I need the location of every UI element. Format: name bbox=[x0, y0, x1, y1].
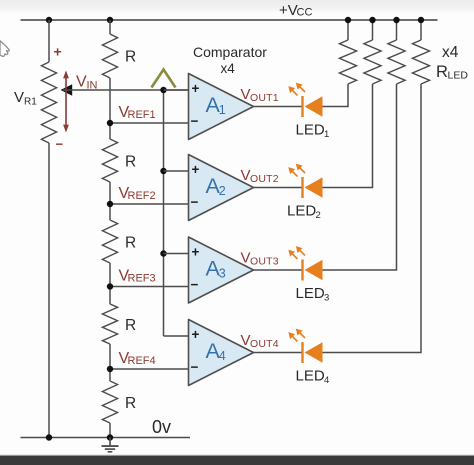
svg-text:V: V bbox=[76, 74, 87, 91]
svg-text:REF3: REF3 bbox=[128, 273, 156, 285]
wire rail to R_LED4 bbox=[420, 20, 422, 40]
mouse cursor bbox=[0, 41, 9, 57]
svg-text:OUT3: OUT3 bbox=[250, 256, 279, 268]
label Vout1 bbox=[241, 86, 279, 104]
svg-text:+: + bbox=[192, 327, 200, 342]
op-amp comparator A2 bbox=[189, 155, 254, 221]
svg-text:V: V bbox=[241, 167, 251, 184]
wire rail to R_LED2 bbox=[372, 20, 374, 40]
svg-text:R: R bbox=[125, 395, 136, 412]
svg-text:LED: LED bbox=[296, 122, 325, 139]
wire LED4 to R_LED4 bbox=[323, 84, 422, 353]
label LED1 bbox=[296, 122, 330, 141]
label Vout4 bbox=[241, 332, 279, 350]
svg-text:−: − bbox=[191, 195, 199, 210]
svg-text:R: R bbox=[436, 63, 448, 81]
node 0v / ladder bbox=[107, 434, 113, 440]
wire A3 output to LED3 bbox=[254, 269, 303, 271]
node Vref1 tap bbox=[107, 120, 113, 126]
node Vref4 tap bbox=[107, 366, 113, 372]
wire Vref3 to A3 - input bbox=[110, 286, 189, 288]
LED3 bbox=[288, 246, 322, 280]
wire A3 + input stub bbox=[164, 253, 189, 255]
wire 0v rail bbox=[21, 437, 191, 439]
wire Vref2 to A2 - input bbox=[110, 203, 189, 205]
wire LED2 to R_LED2 bbox=[323, 84, 373, 188]
svg-text:1: 1 bbox=[324, 129, 329, 140]
LED2 bbox=[288, 164, 322, 198]
resistor R_LED4 bbox=[412, 40, 429, 84]
svg-text:4: 4 bbox=[219, 349, 226, 363]
svg-text:R: R bbox=[125, 49, 136, 66]
wire LED3 to R_LED3 bbox=[323, 84, 397, 270]
svg-text:R1: R1 bbox=[24, 97, 37, 108]
label A4 bbox=[206, 339, 226, 363]
svg-text:+: + bbox=[54, 44, 62, 60]
wire LED1 to R_LED1 bbox=[323, 84, 349, 107]
label LED4 bbox=[296, 368, 330, 387]
resistor R_LED2 bbox=[364, 40, 381, 84]
node rail / R_LED3 bbox=[393, 17, 399, 23]
svg-text:x4: x4 bbox=[221, 61, 236, 76]
svg-text:+: + bbox=[192, 81, 200, 96]
label Vref3 bbox=[119, 268, 156, 285]
svg-text:LED: LED bbox=[287, 203, 316, 220]
svg-text:LED: LED bbox=[448, 70, 469, 82]
node rail / R_LED1 bbox=[345, 17, 351, 23]
node rail / R_LED4 bbox=[418, 17, 424, 23]
svg-text:Comparator: Comparator bbox=[193, 44, 267, 60]
LED1 bbox=[288, 83, 322, 117]
svg-text:2: 2 bbox=[219, 184, 226, 198]
svg-text:LED: LED bbox=[296, 285, 325, 302]
svg-text:3: 3 bbox=[219, 267, 226, 281]
Vin input marker caret bbox=[152, 70, 176, 88]
wire rail to R_LED3 bbox=[396, 20, 398, 40]
wire A1 + input stub bbox=[164, 89, 189, 91]
wire ladder segment 4 bbox=[109, 344, 111, 381]
node Vref2 tap bbox=[107, 201, 113, 207]
svg-text:3: 3 bbox=[324, 293, 329, 304]
svg-text:2: 2 bbox=[316, 210, 321, 221]
node rail / R_LED2 bbox=[369, 17, 375, 23]
resistor R (ladder #1) bbox=[102, 34, 117, 78]
svg-text:REF4: REF4 bbox=[128, 355, 156, 367]
wire +Vcc rail bbox=[21, 19, 438, 21]
label A3 bbox=[206, 257, 226, 281]
wire Vref1 to A1 - input bbox=[110, 122, 189, 124]
potentiometer VR1 bbox=[41, 20, 56, 438]
svg-text:−: − bbox=[56, 137, 64, 152]
svg-text:CC: CC bbox=[297, 7, 313, 19]
wire A2 output to LED2 bbox=[254, 187, 303, 189]
svg-text:+: + bbox=[192, 162, 200, 177]
svg-text:V: V bbox=[14, 89, 24, 106]
label Vref1 bbox=[119, 104, 156, 121]
label Vref2 bbox=[119, 185, 156, 202]
svg-text:1: 1 bbox=[219, 103, 226, 117]
svg-text:0v: 0v bbox=[152, 417, 171, 437]
resistor R_LED1 bbox=[339, 40, 356, 84]
svg-text:V: V bbox=[241, 86, 251, 103]
wire A1 output to LED1 bbox=[254, 106, 303, 108]
svg-text:V: V bbox=[241, 332, 251, 349]
svg-text:IN: IN bbox=[87, 80, 98, 92]
svg-text:+V: +V bbox=[279, 2, 298, 19]
svg-text:R: R bbox=[125, 317, 136, 334]
VR1 wiper arrow bbox=[61, 84, 73, 96]
wire A2 + input stub bbox=[164, 170, 189, 172]
op-amp comparator A3 bbox=[189, 237, 254, 303]
VR1 wiper travel arrow bbox=[63, 71, 69, 133]
resistor R_LED3 bbox=[388, 40, 405, 84]
svg-text:x4: x4 bbox=[442, 44, 459, 61]
wire Vref4 to A4 - input bbox=[110, 368, 189, 370]
wire A4 output to LED4 bbox=[254, 352, 303, 354]
svg-text:4: 4 bbox=[324, 375, 329, 386]
svg-text:−: − bbox=[191, 360, 199, 375]
svg-text:REF1: REF1 bbox=[128, 109, 156, 121]
node Vin bus / A1 + input bbox=[160, 87, 166, 93]
label A2 bbox=[206, 174, 226, 198]
node rail / VR1 junction bbox=[46, 17, 52, 23]
svg-text:OUT1: OUT1 bbox=[250, 92, 279, 104]
label LED3 bbox=[296, 285, 330, 304]
node Vref3 tap bbox=[107, 283, 113, 289]
op-amp comparator A4 bbox=[189, 320, 254, 386]
label Vin bbox=[76, 74, 98, 92]
wire A4 + input stub bbox=[164, 335, 189, 337]
node Vin bus / A2 + input bbox=[160, 168, 166, 174]
resistor R (ladder #3) bbox=[102, 220, 117, 263]
resistor R (ladder #5) bbox=[102, 381, 117, 423]
op-amp comparator A1 bbox=[189, 74, 254, 140]
svg-text:OUT2: OUT2 bbox=[250, 173, 279, 185]
svg-text:LED: LED bbox=[296, 368, 325, 385]
label Vref4 bbox=[119, 350, 156, 367]
node Vin bus / A3 + input bbox=[160, 250, 166, 256]
label +Vcc bbox=[279, 2, 312, 19]
node 0v / VR1 bbox=[46, 434, 52, 440]
wire ladder bottom bbox=[109, 423, 111, 438]
wire ladder segment 1 bbox=[109, 78, 111, 139]
resistor R (ladder #4) bbox=[102, 304, 117, 344]
svg-text:R: R bbox=[125, 154, 136, 171]
wire rail to R_LED1 bbox=[347, 20, 349, 40]
label R_LED bbox=[436, 63, 468, 82]
ground symbol bbox=[102, 438, 119, 452]
label Vout3 bbox=[241, 250, 279, 268]
svg-text:−: − bbox=[191, 114, 199, 129]
LED4 bbox=[288, 329, 322, 363]
svg-text:V: V bbox=[241, 250, 251, 267]
svg-text:REF2: REF2 bbox=[128, 190, 156, 202]
wire ladder segment 2 bbox=[109, 182, 111, 220]
wire Vin (wiper to comparator + bus) bbox=[63, 89, 189, 91]
svg-text:OUT4: OUT4 bbox=[250, 338, 279, 350]
svg-text:+: + bbox=[192, 245, 200, 260]
label VR1 bbox=[14, 89, 37, 108]
svg-text:−: − bbox=[191, 277, 199, 292]
label LED2 bbox=[287, 203, 321, 222]
node rail / ladder junction bbox=[107, 17, 113, 23]
label Vout2 bbox=[241, 167, 279, 185]
label A1 bbox=[206, 93, 226, 117]
resistor R (ladder #2) bbox=[102, 139, 117, 182]
wire Vin vertical bus bbox=[163, 90, 165, 336]
wire ladder top bbox=[109, 20, 111, 34]
wire ladder segment 3 bbox=[109, 263, 111, 304]
svg-text:R: R bbox=[125, 235, 136, 252]
label Comparator x4 bbox=[193, 44, 267, 76]
